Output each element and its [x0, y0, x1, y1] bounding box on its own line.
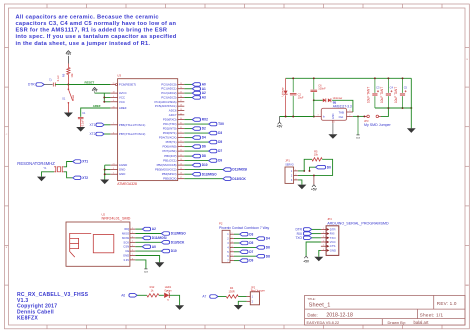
connector P2 pin 6 — [230, 255, 234, 257]
svg-text:PB3(MOSI/OC2): PB3(MOSI/OC2) — [155, 168, 177, 172]
svg-text:6: 6 — [132, 250, 133, 252]
port D0 at JP1 — [316, 165, 326, 169]
svg-text:2018-12-18: 2018-12-18 — [326, 312, 353, 318]
port U2 A2 — [142, 227, 150, 231]
svg-text:GND: GND — [123, 253, 129, 257]
svg-text:PB6(XTAL1/TOSC1): PB6(XTAL1/TOSC1) — [119, 123, 145, 127]
svg-text:3.3V: 3.3V — [123, 258, 129, 262]
svg-text:3: 3 — [232, 241, 233, 243]
svg-text:TITLE:: TITLE: — [307, 297, 315, 301]
svg-text:D6: D6 — [202, 145, 206, 149]
svg-text:+5V: +5V — [66, 52, 73, 56]
svg-text:CE: CE — [125, 249, 129, 253]
svg-text:130R: 130R — [228, 290, 234, 294]
header JP4 pin RXI — [321, 233, 326, 235]
port D4 — [192, 136, 200, 140]
wire TX0 — [184, 123, 208, 125]
svg-text:Vo: Vo — [167, 299, 170, 301]
port P2 D7 — [240, 250, 248, 254]
switch S1 — [67, 85, 69, 89]
wire P2 D5 — [234, 242, 240, 244]
svg-text:D7: D7 — [218, 149, 222, 153]
svg-text:D5: D5 — [249, 241, 253, 245]
wire +5V rail — [280, 116, 314, 118]
svg-text:GND: GND — [119, 168, 125, 172]
svg-text:2: 2 — [132, 232, 133, 234]
wire RXI at JP4 — [312, 233, 321, 235]
svg-text:3: 3 — [295, 178, 296, 180]
wire rail to ground — [410, 78, 412, 128]
svg-text:into spec. If you use a tanta: into spec. If you use a tantalum capacit… — [16, 34, 177, 40]
svg-text:D11/MOSI: D11/MOSI — [232, 168, 247, 172]
capacitor C4 tantalum — [387, 78, 389, 93]
svg-text:16: 16 — [180, 173, 182, 175]
connector P2 pin 5 — [230, 251, 234, 253]
svg-text:U3: U3 — [117, 74, 121, 78]
svg-text:3: 3 — [132, 236, 133, 238]
svg-text:4: 4 — [132, 241, 133, 243]
svg-text:D4: D4 — [202, 136, 206, 140]
svg-text:7: 7 — [113, 123, 114, 125]
svg-text:PB7(XTAL2/TOSC2): PB7(XTAL2/TOSC2) — [119, 132, 145, 136]
wire P2 D6 — [234, 246, 256, 248]
svg-text:+5V: +5V — [311, 188, 318, 192]
svg-text:3: 3 — [113, 168, 114, 170]
svg-text:RESET: RESET — [85, 80, 95, 84]
svg-text:AMS1117-3.3: AMS1117-3.3 — [333, 105, 352, 109]
svg-text:A6: A6 — [121, 294, 125, 298]
svg-text:30: 30 — [180, 118, 182, 120]
svg-text:D3: D3 — [249, 232, 253, 236]
wire GND at JP4 — [319, 250, 321, 256]
svg-text:D10: D10 — [202, 163, 208, 167]
svg-text:10uF TANT: 10uF TANT — [380, 87, 384, 103]
svg-text:9: 9 — [181, 141, 182, 143]
module U2 pins — [130, 228, 135, 230]
capacitor C7 — [52, 83, 54, 87]
svg-text:PB2(SS/OC1B): PB2(SS/OC1B) — [157, 163, 177, 167]
wire diodes to TAB — [332, 100, 353, 112]
svg-text:PD5(T1): PD5(T1) — [166, 140, 177, 144]
port U2 D12/MISO — [161, 232, 169, 236]
svg-text:D12/MISO: D12/MISO — [171, 232, 186, 236]
capacitor C5 tantalum — [402, 78, 404, 93]
wire A2 — [184, 92, 192, 94]
svg-text:8: 8 — [132, 258, 133, 260]
svg-text:1: 1 — [227, 233, 229, 236]
resistor R6 — [67, 64, 69, 68]
wire D12/MISO — [184, 173, 192, 175]
wire D5 — [184, 141, 208, 143]
wire A1 — [184, 88, 192, 90]
wire to diodes — [314, 99, 323, 101]
connector P2 pin 3 — [230, 242, 234, 244]
svg-text:My SMD Jumper: My SMD Jumper — [364, 123, 392, 127]
svg-text:7: 7 — [132, 254, 133, 256]
ground under S1 — [64, 113, 73, 118]
svg-text:D11/MOSI: D11/MOSI — [152, 236, 167, 240]
wire GND bus — [105, 164, 111, 166]
svg-text:R6: R6 — [61, 73, 65, 77]
wire D4 — [184, 137, 192, 139]
svg-text:2: 2 — [252, 300, 254, 303]
svg-text:2: 2 — [232, 237, 233, 239]
svg-text:D5: D5 — [218, 140, 222, 144]
port U2 D11/MOSI — [142, 236, 150, 240]
svg-text:Phoenix Contact Combicon 7 Way: Phoenix Contact Combicon 7 Way — [219, 226, 269, 230]
power +5V — [66, 51, 70, 53]
svg-text:D0: D0 — [327, 165, 331, 169]
power +5V at JP4 — [304, 256, 308, 258]
svg-text:D13/SCK: D13/SCK — [171, 240, 185, 244]
wire R5 loop — [304, 159, 312, 171]
wire RX2 — [184, 119, 192, 121]
port D10 — [192, 163, 200, 167]
svg-text:PD7(AIN1): PD7(AIN1) — [163, 149, 177, 153]
wire DTR at JP4 — [312, 228, 321, 230]
wire JP3 to 3v3 rail — [381, 108, 388, 116]
svg-text:S1: S1 — [62, 97, 66, 101]
port 3v3 at U2 — [144, 268, 147, 270]
port XT2 at Y1 — [73, 176, 81, 180]
svg-text:100nF: 100nF — [318, 87, 326, 91]
svg-text:D13/SCK: D13/SCK — [232, 177, 246, 181]
capacitor C2 — [292, 78, 294, 92]
wire U2 A0 — [135, 246, 142, 248]
svg-text:PB0(ICP): PB0(ICP) — [164, 154, 176, 158]
wire XT2 — [104, 133, 110, 135]
svg-text:5: 5 — [232, 250, 233, 252]
wire A7 to R4 — [218, 296, 226, 298]
svg-text:28: 28 — [180, 105, 182, 107]
connector P2 pin 2 — [230, 238, 234, 240]
port A1 — [192, 87, 200, 91]
svg-text:2: 2 — [349, 115, 350, 117]
wire P2 D7 — [234, 251, 240, 253]
svg-text:In: In — [323, 115, 326, 118]
svg-text:4: 4 — [113, 96, 114, 98]
svg-text:7: 7 — [227, 260, 229, 263]
svg-text:PD6(AIN0): PD6(AIN0) — [163, 145, 177, 149]
svg-text:TX0: TX0 — [218, 122, 224, 126]
svg-text:DTR: DTR — [28, 83, 35, 87]
svg-text:1: 1 — [181, 132, 182, 134]
wire U2 A2 — [135, 228, 142, 230]
wire R4 to JP2 — [238, 296, 246, 298]
wire Y1 to XT1 — [64, 162, 73, 167]
ground at JP2 — [234, 305, 243, 310]
svg-text:ATMEGA328: ATMEGA328 — [117, 182, 137, 186]
svg-text:2: 2 — [295, 174, 296, 176]
svg-text:5: 5 — [132, 245, 133, 247]
wire DTR to C7 — [44, 84, 52, 86]
port P2 D9 — [240, 259, 248, 263]
svg-text:D8: D8 — [266, 254, 270, 258]
wire D10 — [184, 164, 192, 166]
svg-text:SCK: SCK — [123, 240, 129, 244]
ground at JP1 — [297, 185, 306, 190]
svg-text:3: 3 — [318, 115, 319, 117]
svg-text:EASYEDA V5.8.22: EASYEDA V5.8.22 — [307, 320, 340, 325]
svg-text:A3: A3 — [202, 96, 206, 100]
svg-text:Date:: Date: — [307, 312, 317, 317]
svg-text:22: 22 — [180, 113, 182, 115]
wire P2 D8 — [234, 255, 256, 257]
svg-text:C7: C7 — [49, 78, 52, 82]
ground at LED1 — [175, 305, 184, 310]
svg-text:12: 12 — [180, 155, 182, 157]
regulator U1 AMS1117-3.3 — [321, 108, 346, 120]
svg-text:TXO: TXO — [295, 236, 302, 240]
svg-text:in the data sheet, use a jumpe: in the data sheet, use a jumper instead … — [16, 41, 151, 47]
port TX0 — [209, 122, 217, 126]
svg-text:2: 2 — [181, 136, 182, 138]
svg-text:IRQ: IRQ — [124, 227, 130, 231]
svg-text:VCC: VCC — [119, 100, 125, 104]
svg-text:RX2: RX2 — [202, 118, 208, 122]
svg-text:0.1uF: 0.1uF — [57, 75, 60, 82]
svg-text:5: 5 — [113, 173, 114, 175]
svg-text:Sheet: 1/1: Sheet: 1/1 — [420, 312, 444, 317]
svg-text:0.1uF: 0.1uF — [82, 119, 85, 126]
svg-text:D10: D10 — [171, 249, 177, 253]
wire U2 3.3V — [135, 260, 146, 269]
svg-text:C4: C4 — [390, 85, 394, 89]
header JP4 pin CTS — [321, 245, 326, 247]
svg-text:4: 4 — [323, 240, 324, 242]
svg-text:C5: C5 — [404, 85, 408, 89]
wire JP2 to ground — [238, 301, 246, 305]
port A2 — [192, 91, 200, 95]
port D8 — [192, 154, 200, 158]
svg-text:Drawn By:: Drawn By: — [388, 320, 406, 325]
svg-text:ARDUINO_SERIAL_PROGRAMSMD: ARDUINO_SERIAL_PROGRAMSMD — [327, 221, 389, 225]
svg-text:NRF24L01_SMD: NRF24L01_SMD — [102, 216, 131, 220]
wire U2 D13/SCK — [135, 241, 161, 243]
svg-text:PD1(TXD): PD1(TXD) — [163, 122, 176, 126]
ground at supply rail — [407, 128, 416, 133]
ground under regulator — [332, 123, 334, 134]
svg-text:C: C — [6, 134, 8, 136]
wire D8 — [184, 155, 192, 157]
svg-text:14: 14 — [180, 164, 182, 166]
svg-text:25: 25 — [180, 92, 182, 94]
port U2 D13/SCK — [161, 241, 169, 245]
wire D13/SCK — [184, 178, 223, 180]
svg-text:1: 1 — [323, 228, 324, 230]
svg-text:TAB: TAB — [339, 111, 344, 115]
port U2 D10 — [161, 249, 169, 253]
svg-text:E: E — [6, 247, 8, 249]
svg-text:XT1: XT1 — [82, 160, 88, 164]
svg-text:21: 21 — [113, 164, 115, 166]
svg-text:3: 3 — [291, 179, 293, 182]
svg-text:1: 1 — [132, 228, 133, 230]
wire ground rail — [286, 77, 412, 79]
svg-text:XT1: XT1 — [90, 123, 96, 127]
connector P2 pin 4 — [230, 246, 234, 248]
svg-text:All capacitors are ceramic. B: All capacitors are ceramic. Becasue the … — [16, 14, 159, 20]
svg-text:15: 15 — [180, 168, 182, 170]
ground under C1 — [76, 127, 85, 132]
ic U3 right pins — [178, 83, 185, 85]
svg-text:8: 8 — [113, 132, 114, 134]
svg-text:Reset: Reset — [72, 95, 75, 102]
port D12/MISO — [192, 172, 200, 176]
ground under Y1 — [37, 177, 46, 182]
wire JP1 pin3 to ground — [298, 180, 302, 185]
svg-text:6: 6 — [113, 100, 114, 102]
svg-text:XT2: XT2 — [90, 132, 96, 136]
wire Y1 to XT2 — [64, 172, 73, 178]
svg-text:GND: GND — [119, 172, 125, 176]
diode D2 — [323, 98, 326, 102]
svg-text:2: 2 — [323, 232, 324, 234]
port D11/MOSI — [223, 168, 231, 172]
header JP4 pin TXO — [321, 237, 326, 239]
svg-text:23: 23 — [180, 83, 182, 85]
svg-text:ADC7: ADC7 — [169, 113, 177, 117]
svg-text:1: 1 — [232, 233, 233, 235]
wire D2 — [184, 128, 192, 130]
svg-text:AREF: AREF — [119, 106, 127, 110]
port P2 D3 — [240, 232, 248, 236]
svg-text:D4: D4 — [266, 237, 270, 241]
svg-text:REV: 1.0: REV: 1.0 — [437, 301, 457, 306]
svg-text:13: 13 — [180, 159, 182, 161]
header JP4 pin VCC — [321, 241, 326, 243]
svg-text:3: 3 — [227, 242, 229, 245]
svg-text:3: 3 — [323, 236, 324, 238]
capacitor C1 — [78, 116, 84, 118]
wire VCC bus — [95, 92, 111, 94]
wire LED1 to ground — [169, 295, 179, 305]
svg-text:6: 6 — [323, 249, 324, 251]
svg-text:1: 1 — [291, 170, 293, 173]
svg-text:5: 5 — [323, 245, 324, 247]
svg-text:RESONATOR4MHZ: RESONATOR4MHZ — [17, 161, 55, 166]
svg-text:19: 19 — [180, 109, 182, 111]
svg-text:1: 1 — [295, 169, 296, 171]
svg-text:D2: D2 — [202, 127, 206, 131]
svg-text:Out: Out — [339, 115, 344, 119]
svg-text:D8: D8 — [202, 154, 206, 158]
svg-text:4: 4 — [349, 110, 350, 112]
svg-text:27: 27 — [180, 100, 182, 102]
connector P2 pin 7 — [230, 260, 234, 262]
svg-text:CSN: CSN — [123, 245, 129, 249]
svg-text:Y1: Y1 — [43, 166, 47, 170]
port A0 — [192, 83, 200, 87]
svg-text:4: 4 — [227, 246, 229, 249]
wire R12 to LED1 — [159, 294, 164, 296]
port A3 — [192, 96, 200, 100]
svg-text:KE8FZX: KE8FZX — [17, 316, 38, 322]
port D13/SCK — [223, 177, 231, 181]
title block — [305, 295, 465, 325]
svg-text:C1: C1 — [82, 112, 86, 115]
ground under U3 — [100, 180, 109, 185]
svg-text:A2: A2 — [152, 227, 156, 231]
svg-text:PD0(RXD): PD0(RXD) — [163, 118, 177, 122]
power +5V to VCC — [93, 88, 97, 90]
port 3v3 at regulator — [357, 116, 359, 134]
ground at U2 — [155, 262, 164, 267]
svg-text:GND: GND — [332, 113, 335, 119]
node supply input — [313, 99, 315, 101]
port D9 — [209, 159, 217, 163]
svg-text:balal.art: balal.art — [414, 320, 430, 325]
svg-text:AREF: AREF — [93, 104, 101, 108]
svg-text:24: 24 — [180, 87, 182, 89]
svg-text:3v3: 3v3 — [144, 272, 148, 274]
svg-text:PB5(SCK): PB5(SCK) — [163, 177, 176, 181]
svg-text:capacitors C3, C4 amd C5 norma: capacitors C3, C4 amd C5 normally have t… — [16, 21, 177, 27]
svg-text:7: 7 — [232, 259, 233, 261]
svg-text:A0: A0 — [152, 245, 156, 249]
svg-text:+5V: +5V — [277, 125, 284, 129]
wire Y1 to ground — [42, 172, 55, 177]
svg-text:Sheet_1: Sheet_1 — [309, 303, 331, 309]
wire U2 D10 — [135, 250, 161, 252]
wire U2 D11/MOSI — [135, 237, 142, 239]
svg-text:10k: 10k — [314, 153, 319, 157]
svg-text:D9: D9 — [249, 259, 253, 263]
port D7 — [209, 149, 217, 153]
svg-text:10k: 10k — [70, 73, 74, 78]
jumper JP3 — [364, 115, 366, 117]
wire AREF — [81, 108, 111, 117]
svg-text:11: 11 — [180, 150, 182, 152]
svg-text:JP1: JP1 — [285, 159, 290, 163]
svg-text:+5V: +5V — [303, 259, 310, 263]
svg-text:A7: A7 — [202, 295, 206, 299]
ic U3 ATMEGA328 body — [118, 79, 178, 181]
wire regulator out — [353, 115, 365, 117]
svg-text:6: 6 — [227, 255, 229, 258]
svg-text:PD3(INT1): PD3(INT1) — [163, 131, 177, 135]
wire D9 — [184, 160, 208, 162]
svg-text:3v3: 3v3 — [356, 137, 360, 139]
port P2 D8 — [256, 254, 264, 258]
svg-text:Unknow: Unknow — [333, 96, 342, 100]
wire U2 GND — [135, 256, 159, 263]
svg-text:B: B — [466, 59, 468, 61]
diode D3 — [328, 98, 331, 102]
port D2 — [192, 127, 200, 131]
svg-text:10uF TANT: 10uF TANT — [366, 87, 370, 103]
svg-text:6: 6 — [232, 255, 233, 257]
svg-text:10uF TANT: 10uF TANT — [394, 87, 398, 103]
node RESET junction — [67, 84, 69, 86]
svg-text:20: 20 — [113, 106, 115, 108]
wire A0 — [184, 83, 192, 85]
svg-text:PB1(OC1): PB1(OC1) — [163, 159, 176, 163]
module U2 NRF24L01 body — [66, 222, 130, 266]
svg-text:2: 2 — [227, 238, 229, 241]
port D5 — [209, 140, 217, 144]
module U2 antenna art — [70, 233, 92, 257]
svg-text:2: 2 — [291, 174, 293, 177]
diode D1 — [285, 78, 287, 90]
capacitor C6 — [313, 78, 315, 89]
svg-text:5: 5 — [227, 251, 229, 254]
svg-text:Unknow: Unknow — [281, 87, 284, 96]
wire 3v3 rail — [375, 107, 411, 109]
svg-text:4: 4 — [232, 246, 233, 248]
port P2 D4 — [256, 237, 264, 241]
wire D3 — [184, 132, 208, 134]
